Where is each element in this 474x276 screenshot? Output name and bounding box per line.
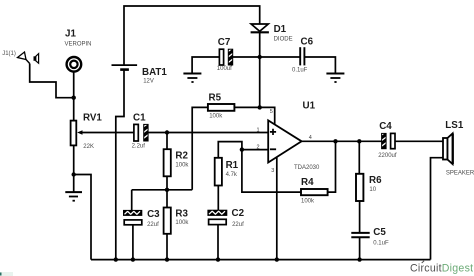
svg-text:3: 3 <box>271 168 274 174</box>
svg-text:R2: R2 <box>175 150 188 161</box>
svg-text:1: 1 <box>257 127 260 133</box>
wire output pin4 to C4 <box>302 140 382 142</box>
svg-text:RV1: RV1 <box>83 113 102 124</box>
svg-text:5: 5 <box>270 109 273 115</box>
node rail C2 <box>216 257 220 261</box>
svg-text:C1: C1 <box>133 113 146 124</box>
capacitor C6 <box>300 47 304 65</box>
label R3 <box>175 209 189 227</box>
svg-text:100uf: 100uf <box>217 66 232 72</box>
label C3 <box>147 209 160 228</box>
label C7 <box>217 37 232 72</box>
wire C6 right to ground <box>304 57 335 74</box>
svg-text:R3: R3 <box>175 209 188 220</box>
label R4 <box>301 177 315 204</box>
label C5 <box>373 227 389 247</box>
label J1(1) <box>2 51 16 57</box>
svg-text:R4: R4 <box>301 177 314 188</box>
battery BAT1 <box>112 65 138 70</box>
label R1 <box>226 160 239 178</box>
label C2 <box>232 208 245 228</box>
svg-text:0.1uF: 0.1uF <box>373 241 389 247</box>
svg-text:0.1uF: 0.1uF <box>292 68 308 74</box>
label C4 <box>378 121 397 159</box>
wire bottom ground rail <box>91 259 431 261</box>
wire J1 down to RV1 <box>73 72 75 121</box>
svg-text:TDA2030: TDA2030 <box>294 165 320 171</box>
svg-text:C5: C5 <box>373 227 386 238</box>
speaker LS1 <box>443 133 453 164</box>
svg-text:100k: 100k <box>301 198 315 204</box>
diode D1 <box>251 24 269 32</box>
wire RV1 bottom to ground node <box>73 145 75 174</box>
node rail pin3 <box>275 257 279 261</box>
node R5/D1 junction <box>258 105 262 109</box>
svg-text:100k: 100k <box>175 220 189 226</box>
wire input icon to J1 stem <box>30 64 74 98</box>
resistor R2 <box>164 133 171 190</box>
resistor R3 <box>164 190 171 260</box>
svg-text:C4: C4 <box>379 121 392 132</box>
capacitor C1 <box>134 123 148 141</box>
node R2/R3/C3/R5 junction <box>165 188 169 192</box>
svg-text:R5: R5 <box>209 92 222 103</box>
svg-text:4: 4 <box>309 135 312 141</box>
svg-text:SPEAKER: SPEAKER <box>446 171 474 177</box>
svg-text:12V: 12V <box>143 79 154 85</box>
svg-text:2200uf: 2200uf <box>378 153 397 159</box>
svg-text:10: 10 <box>369 187 376 193</box>
node rail R3 <box>165 257 169 261</box>
wire C1 right to op-amp + input (pin 1 line) <box>148 132 268 134</box>
label LS1 <box>445 120 474 176</box>
capacitor C4 <box>382 132 443 149</box>
svg-text:U1: U1 <box>303 101 316 112</box>
svg-text:D1: D1 <box>274 24 287 35</box>
resistor R4 <box>242 141 336 195</box>
wire pin3 down to rail <box>276 157 278 260</box>
label R6 <box>369 175 382 193</box>
resistor R6 <box>356 141 363 232</box>
svg-text:C7: C7 <box>218 37 231 48</box>
svg-text:2.2uf: 2.2uf <box>132 143 146 149</box>
ground (C7 left) <box>183 57 219 82</box>
resistor R1 <box>215 142 242 211</box>
svg-text:C2: C2 <box>232 208 245 219</box>
svg-text:R1: R1 <box>226 160 239 171</box>
svg-text:C3: C3 <box>147 209 160 220</box>
node rail C3 <box>131 257 135 261</box>
node rail battery <box>114 257 118 261</box>
svg-text:100k: 100k <box>175 163 189 169</box>
wire top rail from battery to D1 <box>124 6 260 65</box>
label RV1 <box>83 113 102 150</box>
node C1/R2 junction <box>165 130 169 134</box>
capacitor C3 <box>124 190 142 260</box>
svg-text:C6: C6 <box>301 37 314 48</box>
potentiometer RV1 <box>71 121 134 146</box>
svg-text:VEROPIN: VEROPIN <box>65 42 92 48</box>
svg-text:4.7k: 4.7k <box>226 172 238 178</box>
input source icon J1(1) <box>18 52 39 64</box>
label J1 <box>65 29 92 48</box>
node R6 junction <box>357 139 361 143</box>
wire pin2 line <box>242 149 268 151</box>
label D1 <box>274 24 293 43</box>
label BAT1 <box>142 67 167 85</box>
svg-text:22K: 22K <box>83 144 94 150</box>
capacitor C2 <box>208 210 227 259</box>
svg-text:R6: R6 <box>369 175 382 186</box>
wire ground node to bottom rail <box>74 175 91 260</box>
svg-text:22uf: 22uf <box>147 222 159 228</box>
op-amp U1 <box>268 120 301 162</box>
capacitor C5 <box>351 233 369 260</box>
wire C7 right to node and to C6 <box>233 56 300 58</box>
svg-text:LS1: LS1 <box>445 120 464 131</box>
ground (RV1) <box>65 175 82 201</box>
label U1 <box>257 101 321 174</box>
node R1/R4/pin2 junction <box>240 147 244 151</box>
svg-text:100k: 100k <box>209 114 223 120</box>
ground (C6 right) <box>326 74 344 83</box>
wire bias node horizontal <box>132 189 193 191</box>
wire D1 cathode down through C7/C6 node to R5 node <box>259 32 261 107</box>
svg-text:22uf: 22uf <box>232 222 244 228</box>
node RV1 ground junction <box>72 172 76 176</box>
wire battery negative down to ground rail <box>116 70 124 260</box>
node rail C5 <box>357 257 361 261</box>
svg-text:J1(1): J1(1) <box>2 51 16 57</box>
connector J1 <box>67 57 82 72</box>
node C7/C6/D1 junction <box>258 55 262 59</box>
node R4 feedback junction <box>333 139 337 143</box>
wire LS1 bottom terminal to rail <box>431 158 444 260</box>
node input/J1 junction <box>72 96 76 100</box>
logo CircuitDigest <box>410 261 473 275</box>
label C6 <box>292 37 314 74</box>
label R2 <box>175 150 189 168</box>
watermark corner mark <box>0 272 13 276</box>
capacitor C7 <box>219 48 232 65</box>
label R5 <box>209 92 224 119</box>
resistor R5 <box>192 104 275 190</box>
svg-text:J1: J1 <box>65 29 76 40</box>
svg-text:DIODE: DIODE <box>274 37 293 43</box>
svg-text:BAT1: BAT1 <box>142 67 167 78</box>
svg-text:CircuitDigest: CircuitDigest <box>410 263 473 275</box>
label C1 <box>132 113 146 150</box>
